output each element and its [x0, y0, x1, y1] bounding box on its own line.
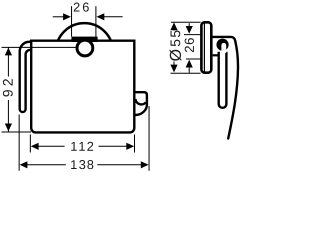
spindle bracket bar: [71, 37, 97, 42]
dim 26 (top) line left tail: [53, 16, 64, 18]
dim 26 (side) line below: [188, 67, 190, 73]
dim 138 line left segment: [27, 164, 66, 166]
dim 92 arrow down: [5, 124, 12, 132]
dim Ø55 arrow down: [170, 65, 177, 73]
dim 26 (top) text: [74, 3, 89, 12]
dim O55 line lower dash: [173, 62, 175, 67]
dim Ø55 arrow up: [170, 22, 177, 30]
dim 26 (top) line right tail: [104, 16, 123, 18]
cover (side view): top edge + sweeping curve: [213, 37, 238, 139]
dim 26 (top) arrow left: [63, 13, 71, 20]
dim 112 line left segment: [38, 145, 65, 147]
dim 112 text: [71, 142, 93, 151]
dim 92 arrow up: [5, 48, 12, 56]
wall plate (side view): [201, 22, 211, 72]
dim Ø55 extension line bottom: [171, 72, 201, 74]
bar loop (side view): [219, 52, 227, 108]
dim 26 (top) extension line left: [71, 6, 73, 36]
bar pivot boss (side view): [216, 39, 228, 51]
dim 26 (side) extension line bottom: [186, 58, 202, 60]
dim 138 line right segment: [97, 164, 142, 166]
dim 138 text: [71, 160, 93, 169]
dim 92 bottom extension line: [2, 131, 32, 133]
dim 26 (side) arrow down: [186, 26, 193, 34]
bar top bend slot (white): [221, 43, 226, 53]
dim 138 extension line right: [148, 106, 150, 171]
dim Ø55 text (rotated): [169, 30, 181, 60]
spindle center line (92 top extension): [2, 46, 77, 48]
roll bar right tip (front view hook): [135, 92, 147, 115]
dim 138 extension line left: [18, 115, 20, 171]
spindle circle: [77, 40, 93, 56]
wall plate inner step line: [203, 24, 205, 72]
dim O55 line upper dash: [173, 29, 175, 31]
dim 138 arrow left: [20, 161, 28, 168]
dim Ø55 extension line top: [171, 21, 201, 23]
dim 112 arrow right: [126, 143, 134, 150]
bracket bottom edge (side view): [213, 54, 220, 56]
dim 92 line lower segment: [7, 100, 9, 132]
mounting dome (front view, behind cover): [56, 23, 113, 80]
dim 92 line upper segment: [7, 47, 9, 76]
dim 92 text (rotated): [3, 79, 13, 96]
dim 26 (side) text (rotated): [185, 38, 194, 52]
roll bar left (front view J-bar): [20, 42, 32, 112]
dim 26 (side) line above: [188, 23, 190, 28]
cover plate (front view): [31, 41, 134, 133]
dim 138 arrow right: [141, 161, 149, 168]
dim 26 (top) arrow right: [97, 13, 105, 20]
dim 26 (side) arrow up: [186, 60, 193, 68]
dim 112 extension line left: [29, 135, 31, 153]
dim 112 extension line right: [134, 135, 136, 153]
dim 26 (top) extension line right: [95, 6, 97, 36]
dim 112 arrow left: [31, 143, 39, 150]
dim 26 (side) extension line top: [184, 34, 201, 36]
dim 112 line right segment: [99, 145, 127, 147]
